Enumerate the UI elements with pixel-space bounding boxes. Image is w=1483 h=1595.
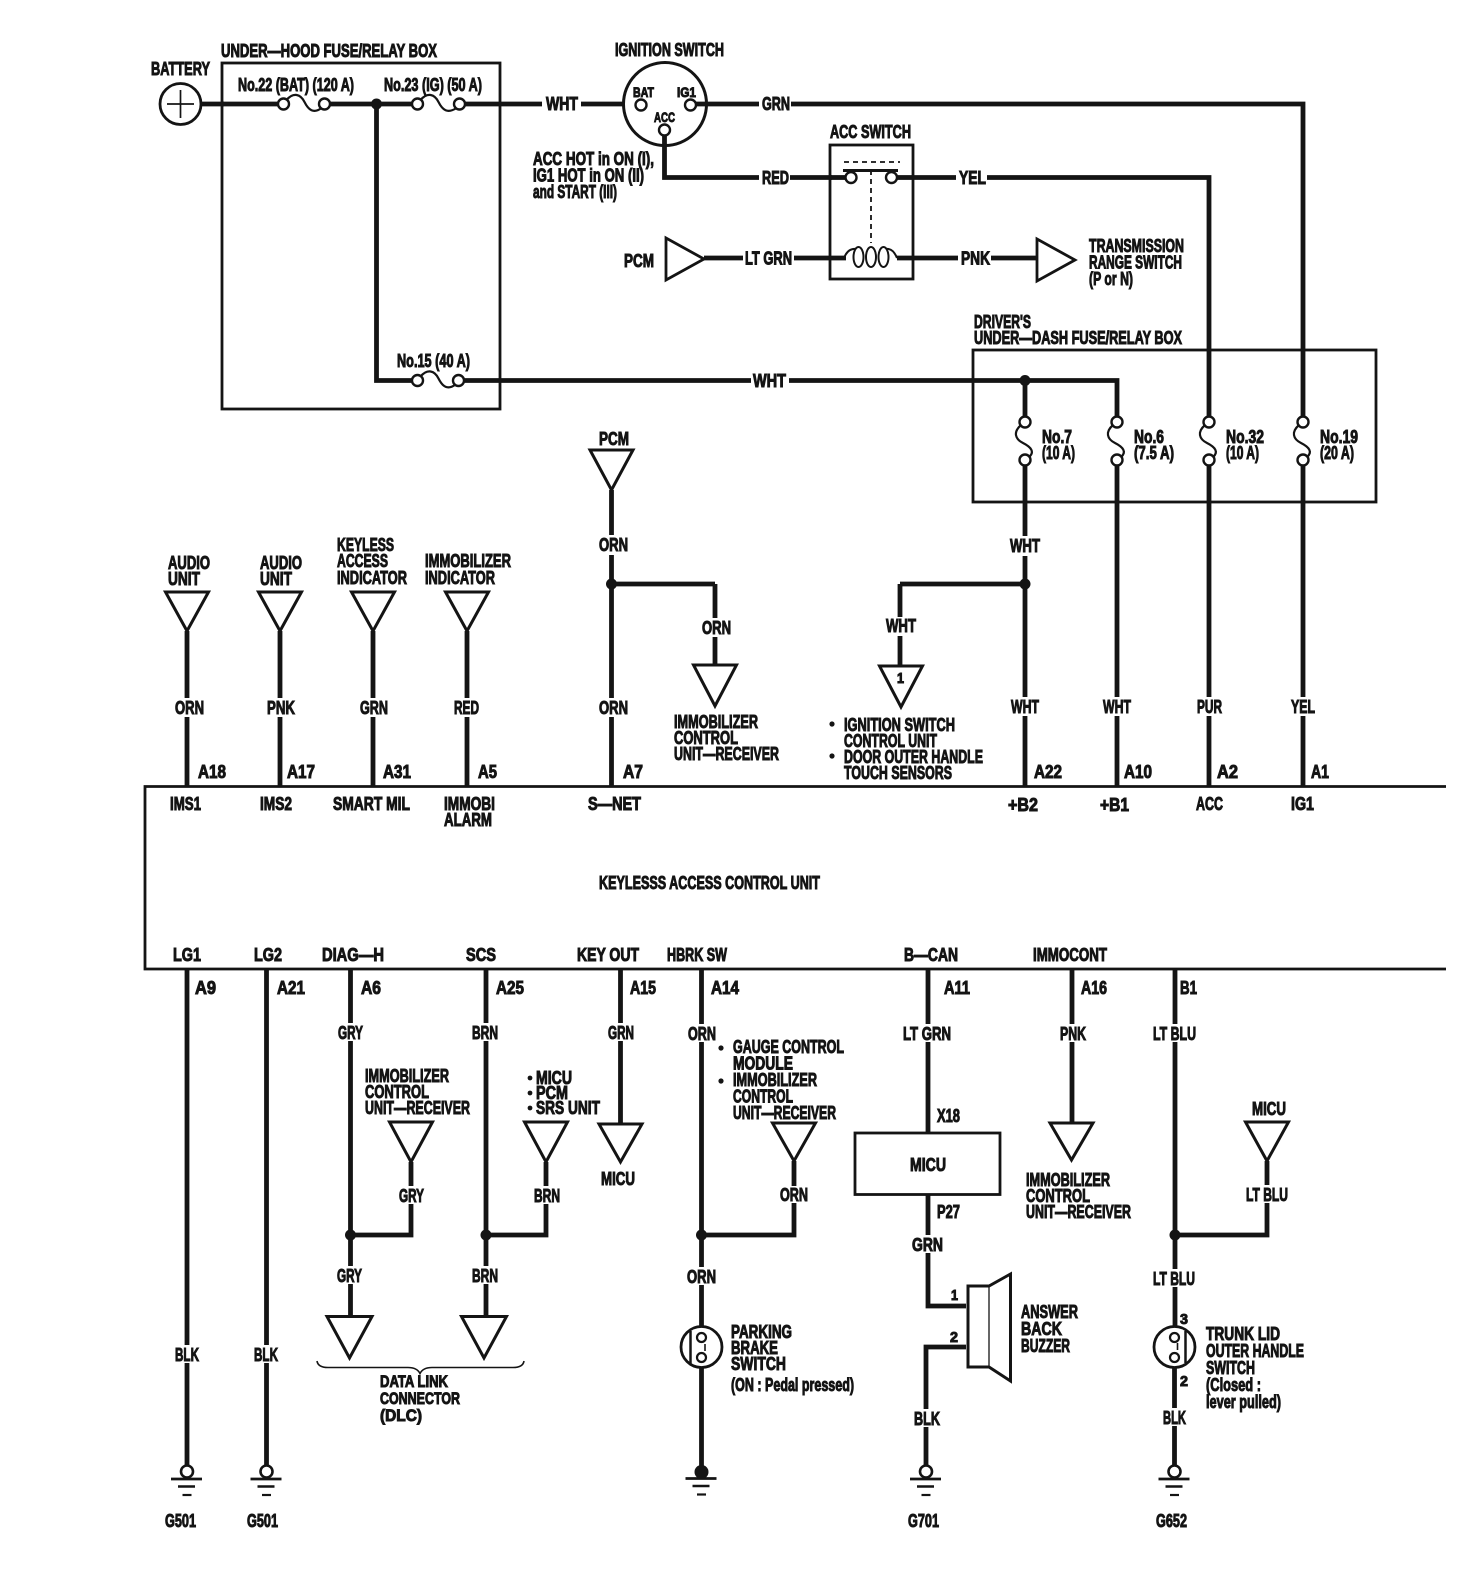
fuse No.19 (20 A)	[1294, 425, 1310, 457]
svg-text:B—CAN: B—CAN	[904, 945, 958, 965]
connector arrow MICU key out	[599, 1124, 642, 1162]
wire fuse No.22 to junction	[330, 102, 378, 107]
wire IG1 pin to GRN label	[696, 102, 759, 107]
svg-text:SMART MIL: SMART MIL	[333, 794, 410, 814]
svg-text:UNIT: UNIT	[260, 569, 292, 589]
svg-text:GRY: GRY	[338, 1023, 363, 1043]
bullet MICU	[528, 1076, 533, 1081]
svg-text:IMS1: IMS1	[170, 794, 201, 814]
wire BLK to ground	[264, 1363, 269, 1466]
svg-text:TOUCH SENSORS: TOUCH SENSORS	[844, 763, 952, 783]
wire PNK to immobilizer receiver arrow	[1070, 1042, 1075, 1123]
svg-text:A18: A18	[198, 762, 226, 782]
svg-text:A31: A31	[383, 762, 411, 782]
svg-text:BRN: BRN	[534, 1186, 560, 1206]
trunk lid outer handle switch	[1154, 1327, 1195, 1368]
wire BRN to junction	[486, 1204, 546, 1235]
svg-text:PNK: PNK	[267, 698, 295, 718]
wire fuse No.23 to WHT label	[465, 102, 542, 107]
wire ACC switch to YEL label	[913, 175, 956, 180]
wire battery to under-hood fuse box	[201, 102, 224, 107]
svg-text:KEY OUT: KEY OUT	[577, 945, 639, 965]
wire BLK to ground	[924, 1427, 929, 1466]
ground parking brake switch	[695, 1465, 709, 1479]
wire junction down to fuse No.7	[1023, 381, 1028, 417]
junction node bus	[371, 99, 382, 110]
wire junction down to WHT label	[1023, 584, 1028, 697]
svg-text:UNIT: UNIT	[168, 569, 200, 589]
connector arrow SCS receiver	[525, 1122, 568, 1162]
wire box edge to fuse No.22	[222, 102, 278, 107]
svg-text:ACC SWITCH: ACC SWITCH	[830, 122, 911, 142]
svg-text:A5: A5	[478, 762, 497, 782]
wire LT BLU to junction	[1175, 1203, 1267, 1235]
svg-text:PCM: PCM	[624, 251, 654, 271]
ground G501 left	[181, 1466, 193, 1478]
fuse No.32 (10 A)	[1200, 425, 1216, 457]
svg-text:IMS2: IMS2	[260, 794, 292, 814]
svg-text:G701: G701	[908, 1511, 939, 1531]
wire WHT into driver fuse box to junction	[789, 378, 1027, 383]
svg-text:BLK: BLK	[914, 1409, 940, 1429]
wire BRN to junction	[484, 1041, 489, 1237]
wire GRN to MICU arrow	[618, 1041, 623, 1124]
connector arrow audio unit 2	[259, 592, 302, 631]
svg-text:LG2: LG2	[254, 945, 282, 965]
svg-text:UNDER—DASH FUSE/RELAY BOX: UNDER—DASH FUSE/RELAY BOX	[974, 328, 1182, 348]
svg-text:(DLC): (DLC)	[380, 1407, 422, 1425]
svg-text:BLK: BLK	[254, 1345, 278, 1365]
wire WHT to pin A10	[1115, 716, 1120, 786]
wire ACC pin down and right to RED label	[665, 135, 760, 178]
wire fuse No.6 down to WHT label	[1115, 466, 1120, 698]
svg-text:ALARM: ALARM	[444, 810, 492, 830]
wire LG1 to BLK label	[185, 969, 190, 1345]
wire GRN to driver fuse box No.19	[791, 104, 1303, 417]
wire branch down to WHT label	[898, 584, 903, 617]
svg-text:LT BLU: LT BLU	[1153, 1024, 1196, 1044]
junction node WHT branch	[1020, 579, 1031, 590]
wire LT BLU to junction	[1173, 1042, 1178, 1237]
wire coil to PNK label	[897, 256, 958, 261]
svg-text:ORN: ORN	[688, 1024, 716, 1044]
svg-text:1: 1	[951, 1287, 958, 1304]
svg-text:LG1: LG1	[173, 945, 201, 965]
svg-text:LT BLU: LT BLU	[1246, 1185, 1288, 1205]
bullet immobilizer receiver	[718, 1078, 723, 1083]
wire HBRK SW to ORN label	[699, 969, 704, 1024]
svg-text:BUZZER: BUZZER	[1021, 1336, 1070, 1356]
wire ORN to immobilizer receiver arrow	[713, 637, 718, 665]
connector arrow immobilizer indicator	[446, 592, 489, 631]
bullet SRS UNIT	[528, 1106, 533, 1111]
wire WHT to pin A22	[1023, 716, 1028, 786]
junction node HBRK	[696, 1230, 707, 1241]
svg-text:(P or N): (P or N)	[1089, 269, 1133, 289]
brace data link connector	[317, 1361, 524, 1374]
wire GRN to buzzer pin 1	[928, 1253, 966, 1306]
connector arrow PCM	[666, 238, 704, 280]
connector arrow immobilizer control unit-receiver	[694, 665, 737, 706]
svg-text:IMMOCONT: IMMOCONT	[1033, 945, 1107, 965]
wire PUR to pin A2	[1207, 716, 1212, 786]
driver under-dash fuse/relay box	[973, 350, 1376, 502]
svg-text:WHT: WHT	[1011, 697, 1039, 717]
svg-text:SCS: SCS	[466, 945, 496, 965]
wire WHT to junction	[1023, 556, 1028, 586]
connector arrow immobilizer receiver IMMOCONT	[1050, 1123, 1093, 1160]
wire PNK to transmission range switch arrow	[991, 256, 1038, 261]
svg-text:A25: A25	[496, 978, 524, 998]
wire junction to ORN label	[699, 1235, 704, 1267]
wire junction to No.6 drop	[1025, 381, 1117, 417]
wire GRN to pin A31	[371, 717, 376, 786]
svg-text:WHT: WHT	[1103, 697, 1131, 717]
wire YEL to driver fuse box No.32	[987, 178, 1209, 417]
svg-text:ACC: ACC	[1196, 794, 1223, 814]
junction node K-line	[345, 1230, 356, 1241]
svg-text:ORN: ORN	[599, 698, 628, 718]
svg-text:No.22 (BAT) (120 A): No.22 (BAT) (120 A)	[238, 75, 354, 95]
wire YEL to pin A1	[1301, 716, 1306, 786]
wire junction down to ORN label	[609, 584, 614, 698]
wire ORN to pin A18	[185, 717, 190, 786]
svg-text:(ON : Pedal pressed): (ON : Pedal pressed)	[731, 1375, 854, 1395]
wire BLK to ground	[185, 1363, 190, 1466]
svg-text:IG1: IG1	[1291, 794, 1314, 814]
svg-text:A7: A7	[623, 762, 643, 782]
fuse No.23 (IG) (50 A)	[421, 95, 457, 111]
wire junction to BRN label	[484, 1235, 489, 1266]
wire arrow to ORN label	[792, 1161, 797, 1186]
wire WHT to ignition switch BAT pin	[581, 102, 636, 107]
svg-text:LT BLU: LT BLU	[1153, 1269, 1195, 1289]
wire ORN to junction	[609, 555, 614, 586]
wire B1 to LT BLU label	[1173, 969, 1178, 1024]
wire PCM arrow to ORN label	[609, 490, 614, 535]
connector arrow PCM down	[590, 450, 633, 490]
connector arrow immobilizer receiver K-line	[390, 1122, 433, 1162]
svg-text:ORN: ORN	[780, 1185, 808, 1205]
wire trunk lid switch to BLK label	[1172, 1368, 1177, 1409]
wire GRY to junction	[351, 1204, 412, 1235]
svg-text:INDICATOR: INDICATOR	[425, 568, 495, 588]
svg-text:UNIT—RECEIVER: UNIT—RECEIVER	[365, 1098, 470, 1118]
svg-text:GRY: GRY	[399, 1186, 424, 1206]
MICU box	[855, 1133, 1000, 1195]
svg-text:ORN: ORN	[599, 535, 628, 555]
svg-text:B1: B1	[1180, 978, 1197, 998]
svg-text:KEYLESSS ACCESS CONTROL UNIT: KEYLESSS ACCESS CONTROL UNIT	[599, 873, 820, 893]
wire PNK to pin A17	[278, 717, 283, 786]
junction node +B feed	[1020, 375, 1031, 386]
svg-text:PNK: PNK	[961, 249, 990, 269]
svg-text:WHT: WHT	[546, 94, 578, 114]
svg-text:MICU: MICU	[910, 1155, 946, 1175]
wire WHT to numbered arrow	[898, 636, 903, 666]
svg-text:G652: G652	[1156, 1511, 1187, 1531]
svg-text:GRN: GRN	[608, 1023, 634, 1043]
wire IMMOCONT to PNK label	[1070, 969, 1075, 1024]
svg-text:P27: P27	[937, 1202, 960, 1222]
fuse No.7 (10 A)	[1016, 425, 1032, 457]
ACC switch coil	[844, 249, 856, 258]
wire arrow to GRY label	[409, 1162, 414, 1186]
svg-text:A10: A10	[1124, 762, 1152, 782]
svg-text:GRY: GRY	[337, 1266, 362, 1286]
ACC switch contact left	[846, 172, 857, 183]
wire audio unit 1 to ORN label	[185, 631, 190, 698]
wire SCS to BRN label	[484, 969, 489, 1023]
svg-text:ORN: ORN	[687, 1267, 716, 1287]
svg-text:G501: G501	[165, 1511, 196, 1531]
junction node S-NET	[606, 579, 617, 590]
wire buzzer pin 2 to BLK label	[926, 1347, 966, 1409]
wire junction to GRY label	[348, 1235, 353, 1266]
wire LT BLU to trunk lid switch	[1173, 1287, 1178, 1327]
svg-text:A6: A6	[361, 978, 381, 998]
connector arrow audio unit 1	[166, 592, 209, 631]
wire junction to LT BLU label	[1173, 1235, 1178, 1269]
wire RED to pin A5	[465, 717, 470, 786]
answer back buzzer	[968, 1274, 1011, 1381]
connector arrow transmission range switch	[1037, 239, 1075, 281]
svg-text:BRN: BRN	[472, 1023, 498, 1043]
battery	[160, 84, 201, 125]
svg-text:A22: A22	[1034, 762, 1062, 782]
svg-text:No.15 (40 A): No.15 (40 A)	[397, 351, 470, 371]
wire ORN to junction	[699, 1042, 704, 1237]
svg-text:S—NET: S—NET	[588, 794, 641, 814]
svg-text:(10 A): (10 A)	[1042, 443, 1075, 463]
svg-text:MICU: MICU	[601, 1169, 635, 1189]
fuse No.22 (BAT) (120 A)	[287, 95, 322, 111]
wire junction down to fuse No.15	[377, 104, 413, 381]
wire audio unit 2 to PNK label	[278, 631, 283, 698]
svg-text:A21: A21	[277, 978, 305, 998]
svg-text:A14: A14	[711, 978, 739, 998]
connector arrow gauge/immobilizer	[773, 1123, 816, 1161]
fuse No.15 (40 A)	[421, 371, 456, 387]
wire DIAG-H to GRY label	[348, 969, 353, 1023]
svg-text:ACC: ACC	[654, 109, 675, 125]
svg-text:A1: A1	[1311, 762, 1329, 782]
connector arrow keyless access indicator	[352, 592, 395, 631]
wire ORN to junction	[702, 1203, 795, 1235]
svg-text:YEL: YEL	[959, 168, 986, 188]
svg-text:HBRK SW: HBRK SW	[667, 945, 727, 965]
wire LT GRN to ACC switch coil	[794, 256, 846, 261]
svg-text:3: 3	[1180, 1311, 1188, 1328]
svg-text:YEL: YEL	[1291, 697, 1315, 717]
wire arrow to BRN label	[544, 1162, 549, 1186]
svg-text:ORN: ORN	[175, 698, 204, 718]
svg-text:RED: RED	[454, 698, 479, 718]
wire branch right at 584	[612, 582, 716, 587]
svg-text:BLK: BLK	[175, 1345, 199, 1365]
svg-text:A16: A16	[1081, 978, 1107, 998]
wire branch down to ORN label	[713, 584, 718, 618]
svg-text:lever pulled): lever pulled)	[1206, 1392, 1281, 1412]
svg-text:GRN: GRN	[762, 94, 790, 114]
svg-text:UNIT—RECEIVER: UNIT—RECEIVER	[733, 1103, 836, 1123]
ground G701	[920, 1466, 932, 1478]
connector arrow DLC SCS	[462, 1317, 507, 1359]
svg-text:2: 2	[950, 1329, 958, 1346]
wire B-CAN to LT GRN label	[926, 969, 931, 1024]
svg-text:A9: A9	[195, 978, 216, 998]
wire ORN to pin A7	[609, 717, 614, 786]
bullet gauge control module	[718, 1045, 723, 1050]
svg-text:UNIT—RECEIVER: UNIT—RECEIVER	[674, 744, 779, 764]
wire keyless access indicator to GRN label	[371, 631, 376, 698]
wire LT GRN to MICU box	[926, 1042, 931, 1133]
connector arrow DLC K-line	[327, 1317, 372, 1359]
svg-text:MICU: MICU	[1252, 1099, 1286, 1119]
under-hood fuse/relay box	[222, 63, 500, 409]
svg-text:BLK: BLK	[1163, 1408, 1186, 1428]
svg-text:(20 A): (20 A)	[1320, 443, 1354, 463]
bullet door outer handle touch sensors	[829, 753, 834, 758]
ignition switch BAT pin	[636, 100, 647, 111]
svg-text:UNDER—HOOD FUSE/RELAY BOX: UNDER—HOOD FUSE/RELAY BOX	[221, 41, 437, 61]
ground G652	[1169, 1466, 1181, 1478]
svg-text:INDICATOR: INDICATOR	[337, 568, 407, 588]
svg-text:+B1: +B1	[1100, 795, 1129, 815]
svg-text:IG1: IG1	[677, 84, 696, 100]
svg-text:LT GRN: LT GRN	[903, 1024, 951, 1044]
svg-text:No.23 (IG) (50 A): No.23 (IG) (50 A)	[384, 75, 482, 95]
junction node SCS	[481, 1230, 492, 1241]
wire fuse No.32 down to PUR label	[1207, 466, 1212, 698]
svg-text:2: 2	[1180, 1373, 1188, 1390]
keyless access control unit box	[145, 787, 1446, 970]
svg-text:WHT: WHT	[886, 616, 916, 636]
bullet PCM	[528, 1091, 533, 1096]
svg-text:1: 1	[897, 670, 904, 687]
wire inside ACC switch left	[830, 175, 846, 180]
svg-text:PUR: PUR	[1197, 697, 1222, 717]
junction node trunk	[1170, 1230, 1181, 1241]
wire branch left at 584	[900, 582, 1025, 587]
wire BRN to DLC arrow	[484, 1284, 489, 1317]
wire immobilizer indicator to RED label	[465, 631, 470, 698]
ignition switch	[624, 63, 707, 146]
svg-text:WHT: WHT	[753, 371, 786, 391]
svg-text:BRN: BRN	[472, 1266, 498, 1286]
svg-text:PCM: PCM	[599, 429, 629, 449]
svg-text:DATA LINK: DATA LINK	[380, 1373, 448, 1391]
svg-text:A2: A2	[1217, 762, 1238, 782]
svg-text:UNIT—RECEIVER: UNIT—RECEIVER	[1026, 1202, 1131, 1222]
svg-text:BATTERY: BATTERY	[151, 59, 210, 79]
svg-text:A15: A15	[630, 978, 656, 998]
connector arrow 1 ignition switch control unit	[880, 666, 923, 707]
wire fuse No.15 to WHT label	[464, 378, 751, 383]
ignition switch IG1 pin	[685, 100, 696, 111]
svg-text:GRN: GRN	[360, 698, 388, 718]
ignition switch ACC pin	[659, 125, 670, 136]
svg-text:A11: A11	[944, 978, 970, 998]
wire GRY to DLC arrow	[348, 1284, 353, 1317]
svg-text:DIAG—H: DIAG—H	[322, 945, 384, 965]
svg-text:(10 A): (10 A)	[1226, 443, 1259, 463]
svg-text:PNK: PNK	[1060, 1024, 1086, 1044]
svg-text:RED: RED	[762, 168, 789, 188]
parking brake switch	[681, 1327, 722, 1368]
wire RED to ACC switch	[790, 175, 832, 180]
svg-text:WHT: WHT	[1010, 536, 1040, 556]
svg-text:BAT: BAT	[633, 84, 654, 100]
svg-text:X18: X18	[937, 1106, 960, 1126]
svg-text:SRS UNIT: SRS UNIT	[536, 1098, 600, 1118]
svg-text:GRN: GRN	[912, 1235, 943, 1255]
svg-text:IGNITION SWITCH: IGNITION SWITCH	[615, 40, 724, 60]
svg-text:G501: G501	[247, 1511, 278, 1531]
wire junction to fuse No.23	[377, 102, 413, 107]
svg-text:A17: A17	[287, 762, 315, 782]
wire BLK to ground	[1172, 1426, 1177, 1466]
wire PCM arrow to LT GRN label	[704, 256, 743, 261]
wire GRY to junction	[348, 1041, 353, 1237]
svg-text:SWITCH: SWITCH	[731, 1354, 786, 1374]
ACC switch contact right	[886, 172, 897, 183]
bullet ignition switch control unit	[829, 721, 834, 726]
wire fuse No.19 down to YEL label	[1301, 466, 1306, 698]
wire fuse No.7 down to WHT label	[1023, 466, 1028, 537]
svg-text:CONNECTOR: CONNECTOR	[380, 1390, 460, 1408]
svg-text:and START (III): and START (III)	[533, 182, 617, 202]
connector arrow MICU trunk	[1246, 1122, 1289, 1161]
svg-text:ORN: ORN	[702, 618, 731, 638]
wire inside ACC switch right	[897, 175, 913, 180]
svg-text:(7.5 A): (7.5 A)	[1134, 443, 1174, 463]
fuse No.6 (7.5 A)	[1108, 425, 1124, 457]
wire ORN to parking brake switch	[699, 1285, 704, 1327]
ACC switch box	[830, 145, 913, 279]
ACC switch dashed link	[844, 161, 900, 163]
wire MICU box to GRN label	[926, 1195, 931, 1236]
svg-text:+B2: +B2	[1008, 795, 1038, 815]
wire parking brake switch to ground	[699, 1368, 704, 1467]
ground G501 right	[261, 1466, 273, 1478]
wire KEY OUT to GRN label	[618, 969, 623, 1023]
ACC switch contact bar	[843, 169, 898, 172]
wire LG2 to BLK label	[264, 969, 269, 1345]
svg-text:LT GRN: LT GRN	[745, 249, 792, 269]
wire arrow to LT BLU label	[1265, 1161, 1270, 1185]
